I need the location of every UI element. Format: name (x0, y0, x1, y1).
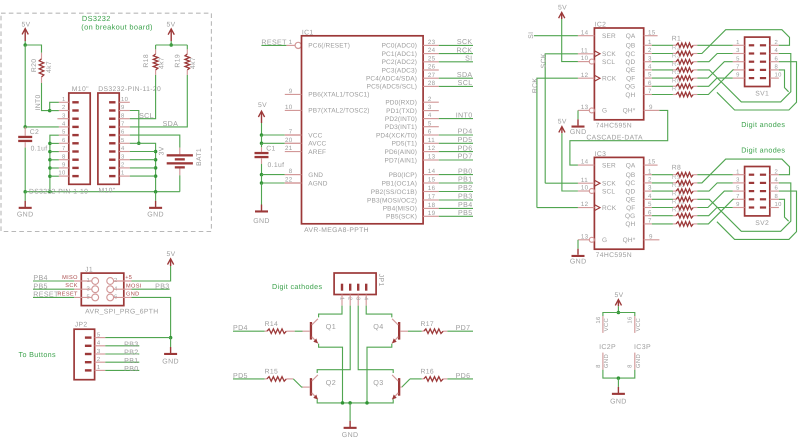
svg-text:PC4(ADC4/SDA): PC4(ADC4/SDA) (366, 76, 417, 83)
IC2 bubble G (589, 108, 594, 113)
svg-text:GND: GND (253, 218, 270, 225)
SV2 pin 4 stub (770, 182, 779, 184)
wire pin6 outer loop (717, 62, 797, 110)
IC2 pin QA stub 15 (644, 35, 658, 37)
J1 pin circle 3 (92, 286, 99, 293)
SV2 pin 10 stub (770, 207, 779, 209)
junction pin2 (48, 109, 52, 113)
svg-text:G: G (602, 237, 607, 244)
IC1 pin 14 PB0(ICP) (423, 174, 439, 176)
resistor R1[6] body (652, 85, 673, 87)
transistor Q1 bar (310, 322, 312, 340)
svg-text:2: 2 (428, 96, 432, 103)
svg-text:24: 24 (428, 47, 436, 54)
svg-text:PB5: PB5 (33, 282, 47, 290)
svg-text:R14: R14 (265, 321, 279, 328)
SV2 pin 7 stub (733, 198, 745, 200)
svg-text:C2: C2 (30, 129, 39, 136)
IC2 clock wedge SCK (594, 51, 600, 57)
junction pin9 tie (48, 166, 52, 170)
svg-text:SCK: SCK (602, 181, 616, 188)
svg-text:PC2(ADC2): PC2(ADC2) (382, 59, 417, 66)
op-amp U1 AVR IC1 box (302, 36, 424, 224)
IC1 pin 25 PC2(ADC2) (423, 61, 439, 63)
svg-text:5V: 5V (166, 251, 175, 258)
wire 5V to IC2 SCL pin10 (562, 19, 578, 62)
svg-text:15: 15 (428, 177, 436, 184)
svg-text:25: 25 (428, 55, 436, 62)
svg-text:RESET: RESET (33, 291, 59, 299)
wire pin8 branch (779, 199, 789, 221)
svg-text:QH: QH (625, 221, 635, 228)
transistor Q1 emitter lead (312, 337, 318, 344)
J1 pin circle 4 (107, 286, 114, 293)
svg-text:9: 9 (62, 162, 66, 169)
svg-text:9: 9 (649, 104, 653, 111)
svg-text:AREF: AREF (308, 149, 326, 156)
svg-text:22: 22 (285, 177, 293, 184)
SV1 pin 10 stub (770, 77, 779, 79)
IC3 clock wedge RCK (594, 205, 600, 211)
transistor Q2 collector lead (312, 375, 318, 381)
SV2 pin 2 stub (770, 174, 779, 176)
wire rail to AVCC (261, 135, 263, 143)
svg-text:12: 12 (581, 201, 589, 208)
net SCK bus wire (545, 54, 578, 183)
JP1 pin stub 1 (341, 295, 343, 306)
power pin IC2P VCC 16 (602, 316, 604, 333)
svg-text:4: 4 (775, 177, 779, 184)
svg-text:GND: GND (603, 354, 610, 368)
junction VCC pin4 (23, 125, 27, 128)
wire power bottom rail (603, 370, 635, 378)
wire QE to pin4 inner loop (697, 54, 791, 102)
svg-text:5V: 5V (166, 21, 175, 28)
resistor R8[2] body (652, 182, 673, 184)
IC2 pin QB stub 1 (644, 44, 652, 46)
net RESET wire (261, 44, 286, 46)
svg-text:5V: 5V (258, 102, 267, 109)
svg-text:PB5(SCK): PB5(SCK) (386, 214, 417, 221)
svg-text:Q4: Q4 (373, 322, 383, 331)
svg-text:GND: GND (570, 129, 587, 136)
svg-text:9: 9 (736, 201, 740, 208)
svg-text:PB5: PB5 (458, 209, 472, 217)
svg-text:3: 3 (355, 297, 361, 300)
svg-text:12: 12 (428, 145, 436, 152)
SV1 pads row 4 (749, 69, 754, 71)
svg-text:PD0(RXD): PD0(RXD) (385, 100, 417, 107)
wire battery top (130, 135, 180, 148)
IC1 left pin stubs (285, 93, 302, 95)
svg-text:PD4: PD4 (233, 324, 248, 332)
SV2 pads row 5 (749, 206, 754, 208)
junction right pin4 (154, 150, 158, 154)
JP2 pad 1 (85, 369, 92, 371)
IC1 pin 28 PC5(ADC5/SCL) (423, 85, 439, 87)
svg-text:7: 7 (648, 218, 652, 225)
svg-text:14: 14 (428, 168, 436, 175)
svg-text:74HC595N: 74HC595N (596, 252, 632, 259)
svg-text:R19: R19 (175, 54, 182, 68)
svg-text:3: 3 (428, 104, 432, 111)
wire pins 5..1 tie rail (130, 143, 156, 191)
JP2 pad 2 (85, 361, 92, 363)
svg-text:4k7: 4k7 (46, 61, 53, 73)
svg-text:4: 4 (428, 112, 432, 119)
net PB0 wire (JP2) (105, 369, 139, 371)
net PB4 wire (33, 280, 74, 282)
svg-text:PC3(ADC3): PC3(ADC3) (382, 67, 417, 74)
svg-text:Q1: Q1 (326, 322, 336, 331)
svg-text:5: 5 (736, 55, 740, 62)
wire QH to pin7 (697, 70, 733, 95)
IC1 pin 23 PC0(ADC0) (423, 44, 439, 46)
wire QG to pin9 (697, 78, 732, 86)
wire pin6 outer loop (717, 191, 797, 239)
JP2 pad 5 (85, 336, 92, 338)
connector SV2 box (745, 167, 770, 216)
svg-text:4: 4 (648, 64, 652, 71)
svg-text:5V: 5V (558, 4, 567, 11)
svg-text:SCL: SCL (458, 79, 473, 87)
svg-text:GND: GND (17, 211, 34, 218)
svg-text:PD6(AIN0): PD6(AIN0) (384, 149, 417, 156)
wire QB to pin1 (697, 174, 732, 176)
svg-text:7: 7 (648, 88, 652, 95)
JP2 pad 4 (85, 345, 92, 347)
svg-text:Q3: Q3 (373, 378, 383, 387)
IC3 pin QC stub 2 (644, 182, 652, 184)
power pin IC3P GND 8 (634, 353, 636, 370)
svg-text:MISO: MISO (62, 275, 78, 281)
svg-text:PD3(INT1): PD3(INT1) (385, 124, 417, 131)
transistor Q4 bar (398, 322, 400, 340)
svg-text:PB4: PB4 (458, 201, 472, 209)
svg-text:SV2: SV2 (755, 220, 769, 227)
svg-text:PB7(XTAL2/TOSC2): PB7(XTAL2/TOSC2) (308, 108, 369, 115)
svg-text:M10": M10" (99, 187, 116, 194)
junction power bottom (617, 376, 621, 380)
wire VCC (262, 134, 285, 136)
svg-text:20: 20 (285, 137, 293, 144)
svg-text:2: 2 (648, 47, 652, 54)
svg-text:13: 13 (428, 154, 436, 161)
IC1 pin 2 PD0(RXD) (423, 101, 439, 103)
resistor R1[2] body (652, 53, 673, 55)
JP1 pad 2 (349, 284, 351, 291)
svg-text:QG: QG (625, 213, 635, 220)
svg-text:JP2: JP2 (75, 321, 88, 328)
JP1 pin stub 4 (365, 295, 367, 306)
svg-text:R15: R15 (265, 369, 279, 376)
junction pullup rail (169, 43, 173, 47)
header M10 DS3232-PIN-11-20 (98, 93, 119, 184)
SV2 pin 9 stub (733, 207, 745, 209)
svg-text:SDA: SDA (457, 71, 473, 79)
svg-text:PB1: PB1 (124, 357, 138, 365)
svg-text:GND: GND (126, 292, 139, 298)
ground GND (power pins) (617, 378, 619, 387)
svg-text:17: 17 (428, 194, 436, 201)
svg-text:PB1(OC1A): PB1(OC1A) (382, 180, 417, 187)
svg-text:SCL: SCL (602, 59, 615, 66)
svg-text:SCK: SCK (457, 38, 473, 46)
svg-text:PB3: PB3 (155, 282, 169, 290)
IC3 pin QH* stub 9 (644, 239, 660, 241)
svg-text:5V: 5V (614, 292, 623, 299)
JP1 pad 4 (365, 284, 367, 291)
wire JP2 pin5 to GND (105, 337, 170, 339)
svg-text:8: 8 (627, 364, 634, 368)
wire R16 to Q3 base (410, 378, 422, 380)
svg-text:SCK: SCK (602, 51, 616, 58)
wire +5 to J1 (132, 266, 171, 281)
svg-text:QF: QF (626, 205, 635, 212)
svg-text:PD5: PD5 (458, 136, 473, 144)
resistor R20 4k7 (41, 53, 43, 59)
svg-text:9: 9 (736, 72, 740, 79)
svg-text:IC2P: IC2P (599, 344, 616, 351)
J1 pin stub left 1 (74, 280, 91, 282)
svg-text:IC2: IC2 (595, 21, 607, 28)
wire RCK to IC3 (537, 207, 578, 209)
net RESET wire (J1) (33, 296, 74, 298)
ground GND (breakout left) (24, 192, 26, 201)
wire pin9 to gnd rail (130, 111, 139, 144)
IC3 bubble G (589, 237, 594, 242)
ground GND (transistors) (349, 403, 351, 421)
svg-text:PB4(MISO): PB4(MISO) (383, 206, 417, 213)
capacitor C2 0.1uf (24, 127, 26, 136)
wire 5V to IC3 SCL pin10 (562, 133, 578, 191)
wire pin9 (50, 167, 59, 169)
svg-text:3: 3 (62, 112, 66, 119)
svg-text:8: 8 (595, 364, 602, 368)
bottom GND rail wire (25, 191, 180, 193)
transistor Q3 emitter lead (392, 393, 398, 400)
connector JP2 box (74, 329, 95, 380)
net PB2 wire (JP2) (105, 353, 139, 355)
SV1 pin 7 stub (733, 69, 745, 71)
svg-text:3: 3 (648, 185, 652, 192)
net CASCADE-DATA wire (570, 110, 668, 165)
wire QF to pin5 (697, 191, 732, 207)
ground GND (IC3) (577, 240, 579, 249)
svg-text:10: 10 (581, 185, 589, 192)
svg-text:QH: QH (625, 92, 635, 99)
SV1 pin 8 stub (770, 69, 779, 71)
svg-text:11: 11 (581, 177, 588, 184)
svg-text:6: 6 (775, 55, 779, 62)
IC3 clock wedge SCK (594, 180, 600, 186)
svg-text:10: 10 (121, 96, 129, 103)
battery BAT1 3V (179, 148, 181, 155)
svg-text:GND: GND (635, 354, 642, 368)
SV2 pin 6 stub (770, 190, 779, 192)
wire QF to pin5 (697, 62, 732, 78)
svg-text:4: 4 (121, 145, 125, 152)
IC2 clock wedge RCK (594, 75, 600, 81)
svg-text:VCC: VCC (603, 317, 610, 331)
JP2 pin stub 1 (95, 369, 106, 371)
svg-text:21: 21 (285, 145, 293, 152)
svg-text:SV1: SV1 (755, 91, 769, 98)
wire Q4 emitter to bus (367, 344, 392, 403)
svg-text:28: 28 (428, 80, 436, 87)
IC1 pin 18 PB4(MISO) (423, 207, 439, 209)
IC2 pin QF stub 5 (644, 77, 652, 79)
wire R15 to Q2 base (293, 379, 302, 387)
wire JP1 pin2 to Q2 collector (317, 306, 350, 373)
svg-text:QH*: QH* (623, 237, 636, 244)
svg-text:RCK: RCK (532, 78, 539, 94)
svg-text:2: 2 (775, 168, 779, 175)
svg-text:8: 8 (62, 153, 66, 160)
svg-text:26: 26 (428, 64, 436, 71)
svg-text:5: 5 (62, 129, 66, 136)
IC2 bubble SCL (589, 59, 594, 64)
transistor Q2 bar (310, 378, 312, 396)
svg-text:PB1: PB1 (458, 176, 472, 184)
wire R14 to Q1 base (295, 330, 303, 332)
svg-text:AGND: AGND (308, 180, 327, 187)
svg-text:1: 1 (736, 39, 740, 46)
svg-text:R8: R8 (672, 165, 681, 172)
svg-text:4k7: 4k7 (159, 57, 166, 69)
svg-text:QE: QE (626, 67, 636, 74)
resistor R8[1] body (652, 174, 673, 176)
wire QE to pin4 inner loop (697, 183, 791, 231)
SV2 pin 5 stub (733, 190, 745, 192)
pin 1 reset bubble (286, 44, 295, 46)
resistor R19 4k7 (186, 45, 188, 49)
junction right pin2 (154, 166, 158, 170)
svg-text:PB2: PB2 (458, 184, 472, 192)
wire JP1 pin3 to Q3 collector (358, 306, 393, 373)
ground GND (IC2) (577, 110, 579, 119)
svg-text:QB: QB (626, 43, 636, 50)
svg-text:IC3: IC3 (595, 151, 607, 158)
wire right pin3 (130, 159, 156, 161)
IC1 pin 4 PD2(INT0) (423, 118, 439, 120)
SV1 pin 1 stub (733, 44, 745, 46)
svg-text:PB3: PB3 (458, 193, 472, 201)
svg-text:1: 1 (339, 297, 345, 300)
svg-text:6: 6 (648, 209, 652, 216)
JP2 pin stub 3 (95, 353, 106, 355)
svg-text:12: 12 (581, 72, 589, 79)
svg-text:PD4: PD4 (458, 128, 473, 136)
svg-text:5: 5 (648, 72, 652, 79)
svg-text:6: 6 (121, 129, 125, 136)
svg-text:5: 5 (736, 185, 740, 192)
capacitor C1 0.1uf (261, 143, 263, 147)
svg-text:8: 8 (775, 64, 779, 71)
svg-text:PD5(T1): PD5(T1) (392, 141, 417, 148)
svg-text:Digit cathodes: Digit cathodes (272, 282, 323, 291)
IC1 pin 11 PD5(T1) (423, 142, 439, 144)
wire AGND pin 22 (262, 182, 285, 184)
wire QH to pin7 (697, 199, 733, 224)
svg-text:VCC: VCC (308, 132, 322, 139)
SV2 pin 3 stub (733, 182, 745, 184)
svg-text:0.1uf: 0.1uf (31, 145, 48, 152)
svg-text:1: 1 (648, 39, 652, 46)
svg-text:6: 6 (648, 80, 652, 87)
wire QD to pin3 (697, 54, 732, 62)
svg-text:4k7: 4k7 (190, 57, 197, 69)
resistor R17 (443, 330, 447, 332)
resistor R18 4k7 (155, 45, 157, 49)
wire pin10 (50, 175, 59, 177)
IC3 bubble SCL (589, 189, 594, 194)
svg-text:15: 15 (648, 159, 656, 166)
net SCL wire (130, 75, 156, 119)
wire Q2 emitter to bus (317, 399, 393, 403)
transistor Q3 bar (398, 378, 400, 396)
JP1 pad 3 (357, 284, 359, 291)
svg-text:5: 5 (97, 331, 101, 338)
SV2 pads row 3 (749, 190, 754, 192)
IC1 pin 6 PD4(XCK/T0) (423, 134, 439, 136)
JP1 pin stub 2 (349, 295, 351, 306)
svg-text:+5: +5 (125, 275, 132, 281)
resistor R8[7] body (652, 223, 673, 225)
IC1 pin 5 PD3(INT1) (423, 126, 439, 128)
net PD5 wire (233, 378, 265, 380)
J1 pin circle 2 (107, 278, 114, 285)
junction pin7 tie (48, 150, 52, 154)
IC1 pin 12 PD6(AIN0) (423, 151, 439, 153)
svg-text:3: 3 (97, 348, 101, 355)
IC1 pin 17 PB3(MOSI/OC2) (423, 199, 439, 201)
svg-text:5V: 5V (21, 21, 30, 28)
wire 5V rail down (24, 45, 26, 127)
IC3 pin QH stub 7 (644, 223, 652, 225)
svg-text:27: 27 (428, 72, 436, 79)
wire pins 5-10 tie rail (50, 135, 59, 192)
svg-text:18: 18 (428, 202, 436, 209)
svg-text:PD2(INT0): PD2(INT0) (385, 116, 417, 123)
svg-text:9: 9 (121, 104, 125, 111)
IC1 pin 3 PD1(TXD) (423, 110, 439, 112)
resistor R16 (443, 378, 447, 380)
ground GND (AVR) (261, 183, 263, 205)
power pin IC2P GND 8 (602, 353, 604, 370)
wire R17 to Q4 base (408, 330, 422, 332)
svg-text:IC3P: IC3P (634, 344, 651, 351)
JP2 pin stub 5 (95, 337, 106, 339)
power pin IC3P VCC 16 (634, 316, 636, 333)
svg-text:10: 10 (775, 72, 783, 79)
svg-text:PB2(SS/OC1B): PB2(SS/OC1B) (371, 189, 417, 196)
svg-text:5: 5 (648, 201, 652, 208)
resistor R8[6] body (652, 215, 673, 217)
net PD6 wire (447, 378, 473, 380)
svg-text:SCK: SCK (65, 283, 78, 289)
IC1 pin 26 PC3(ADC3) (423, 69, 439, 71)
svg-text:To Buttons: To Buttons (19, 350, 57, 359)
wire QC to pin2 top loop (697, 30, 789, 54)
svg-text:0.1uf: 0.1uf (268, 162, 285, 169)
IC2 pin QH* stub 9 (644, 109, 660, 111)
svg-text:8: 8 (289, 168, 293, 175)
svg-text:PB3: PB3 (124, 340, 138, 348)
svg-text:74HC595N: 74HC595N (596, 122, 632, 129)
svg-text:10: 10 (58, 170, 66, 177)
svg-text:3: 3 (648, 55, 652, 62)
